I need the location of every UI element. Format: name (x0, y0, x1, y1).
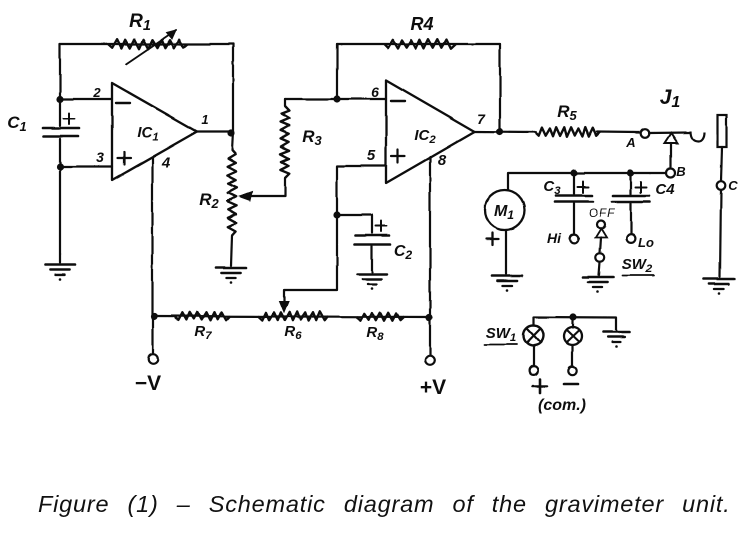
label C2 (394, 243, 413, 262)
svg-text:OFF: OFF (589, 206, 616, 220)
label pin 5 (367, 147, 376, 164)
resistor R8 (357, 313, 404, 321)
meter M1 (485, 190, 525, 230)
label M1 plus (486, 233, 498, 245)
svg-text:7: 7 (477, 111, 486, 127)
switch OFF wiper triangle (596, 229, 607, 238)
svg-text:3: 3 (96, 149, 104, 165)
svg-text:+V: +V (420, 376, 446, 399)
label C terminal (728, 178, 738, 193)
label R1 (129, 11, 151, 34)
wire R2 top (232, 132, 233, 151)
IC2 minus sign (391, 100, 405, 102)
label SW2 (622, 256, 654, 276)
capacitor C3 (555, 182, 593, 202)
terminal +V (425, 356, 435, 366)
label R6 (284, 323, 302, 342)
label IC1 (137, 124, 158, 143)
wire C2 node down to R6 wiper (280, 215, 338, 312)
node +V junction (425, 314, 432, 321)
label pin 1 (201, 112, 208, 127)
ground (jack sleeve) (704, 279, 734, 295)
label A (625, 135, 635, 150)
wire M1 bottom (505, 230, 507, 274)
resistor R6 (pot) (258, 311, 328, 320)
terminal B (666, 169, 675, 178)
wire pole to ground (599, 262, 600, 275)
svg-text:IC1: IC1 (137, 124, 158, 143)
svg-text:IC2: IC2 (414, 127, 436, 146)
svg-text:A: A (625, 135, 635, 150)
svg-text:C3: C3 (543, 178, 561, 197)
svg-text:C2: C2 (394, 243, 413, 262)
wire triangle to B (670, 143, 672, 169)
wire pin 2 (60, 98, 112, 100)
svg-text:SW1: SW1 (486, 325, 517, 344)
wire +V terminal (429, 317, 431, 355)
label pin 2 (92, 85, 101, 100)
label + polarity (533, 379, 547, 393)
wire left vertical (inverting input / C1 branch) (59, 44, 61, 263)
wire OFF to pole (600, 238, 601, 254)
IC2 plus sign (392, 150, 405, 163)
svg-text:SW2: SW2 (622, 256, 653, 275)
terminal Hi (570, 235, 579, 244)
ground (SW2) (583, 277, 613, 293)
svg-text:2: 2 (92, 85, 101, 100)
node C3 junction (570, 169, 577, 176)
label M1 (494, 203, 514, 222)
label pin 7 (477, 111, 486, 127)
label C3 (543, 178, 561, 197)
terminal Lo (627, 234, 636, 243)
wire C4 to Lo (630, 203, 632, 234)
svg-text:C: C (728, 178, 738, 193)
resistor R2 (pot) (227, 150, 237, 235)
label R7 (194, 323, 212, 342)
wire SW1 bus (534, 317, 616, 330)
svg-text:8: 8 (438, 152, 447, 169)
label C1 (7, 113, 26, 134)
resistor R4 (384, 39, 456, 49)
terminal + (SW1) (529, 366, 538, 375)
resistor R5 (535, 127, 600, 137)
wire R4 left leg (336, 44, 338, 99)
wire R2 bottom (231, 235, 232, 266)
terminal -V (148, 354, 158, 364)
label J1 (660, 86, 681, 111)
label R3 (302, 127, 322, 148)
node pin5/C2 junction (333, 211, 340, 218)
label +V (420, 376, 446, 399)
wire lamp1 to + terminal (532, 346, 534, 367)
label SW1 (485, 325, 517, 344)
label R4 (410, 14, 433, 34)
svg-text:R6: R6 (284, 323, 302, 342)
wire B bus (508, 173, 666, 190)
svg-text:Hi: Hi (547, 230, 562, 246)
wire lamp2 top (571, 317, 573, 328)
node IC2 output (496, 128, 503, 135)
wire C2 stub (337, 215, 372, 233)
svg-text:1: 1 (201, 112, 208, 127)
node pin2 junction (56, 95, 63, 102)
wire feedback right leg (232, 44, 234, 132)
wire C3 to Hi (573, 203, 575, 234)
terminal A (641, 129, 650, 138)
label -V (135, 372, 161, 395)
resistor R3 (280, 106, 290, 178)
plug sleeve (718, 115, 727, 147)
capacitor C2 (355, 221, 390, 245)
wire C to ground (720, 190, 721, 277)
svg-text:R3: R3 (302, 127, 322, 148)
wire pin 8 down to +V bus (429, 157, 431, 317)
ground (SW1) (603, 332, 629, 348)
wire IC1 output (197, 130, 233, 132)
label pin 8 (438, 152, 447, 169)
wire sleeve to C (721, 147, 722, 181)
wire pin 4 down to -V bus (151, 158, 153, 316)
svg-text:−V: −V (135, 372, 161, 395)
svg-text:5: 5 (367, 147, 376, 164)
lamp + (left) (524, 326, 544, 346)
wire R5 to A (597, 131, 640, 134)
node IC1 output (227, 129, 234, 136)
wire -V terminal (152, 316, 154, 354)
wire R2 wiper from R3 (239, 178, 285, 201)
wire supply bus (153, 316, 430, 317)
node SW1 bus (569, 313, 576, 320)
svg-text:R1: R1 (129, 11, 151, 34)
wire pin 3 (60, 166, 112, 168)
resistor R1 (108, 30, 188, 64)
label Hi (547, 230, 562, 246)
wire pin 5 to C2 node (337, 166, 386, 215)
label pin 3 (96, 149, 104, 165)
svg-text:C4: C4 (655, 181, 675, 198)
svg-text:4: 4 (161, 154, 171, 171)
ground (M1) (492, 276, 522, 292)
svg-text:R7: R7 (194, 323, 212, 342)
label pin 4 (161, 154, 171, 171)
node -V junction (150, 313, 157, 320)
svg-text:R2: R2 (199, 190, 219, 211)
svg-text:R8: R8 (366, 324, 384, 343)
label − polarity (564, 383, 578, 386)
label C4 (655, 181, 675, 198)
wire R3 top stub (284, 99, 286, 106)
label OFF (589, 206, 616, 220)
op-amp IC2 (386, 80, 475, 183)
switch OFF contact top (597, 221, 605, 229)
jack hook J1 (690, 131, 704, 142)
resistor R7 (174, 312, 230, 320)
wire IC2 output (475, 130, 535, 133)
label IC2 (414, 127, 436, 146)
ground (R2) (216, 268, 246, 284)
wire pin 6 (285, 98, 386, 100)
wire lamp2 to − terminal (571, 346, 573, 367)
wire R4 top (337, 43, 500, 45)
op-amp IC1 (112, 83, 197, 180)
wire A to hook (649, 131, 689, 134)
label R8 (366, 324, 384, 343)
svg-text:6: 6 (371, 84, 379, 100)
label Lo (638, 235, 654, 250)
label (com.) (538, 397, 586, 414)
caption: Figure (1) - Schematic diagram of the gravimeter unit. (38, 491, 728, 518)
wire C2 bottom (371, 246, 373, 272)
svg-text:(com.): (com.) (538, 397, 586, 414)
ground (C1 branch) (45, 265, 75, 281)
svg-text:B: B (676, 164, 685, 179)
svg-text:J1: J1 (660, 86, 681, 111)
wire R4 right leg (499, 44, 501, 132)
node C4 junction (627, 169, 634, 176)
svg-text:R4: R4 (410, 14, 433, 34)
IC1 minus sign (116, 102, 130, 104)
label R5 (557, 102, 577, 123)
label R2 (199, 190, 219, 211)
svg-text:Lo: Lo (638, 235, 654, 250)
switch SW2 pole (596, 253, 604, 261)
wire C3 stub (573, 173, 575, 194)
svg-text:C1: C1 (7, 113, 26, 134)
capacitor C4 (612, 182, 650, 202)
terminal − (SW1) (568, 366, 576, 374)
ground (C2) (357, 274, 387, 290)
node pin6 / R4 junction (333, 95, 340, 102)
wire top feedback (IC1) (60, 43, 233, 45)
wire C4 stub (630, 173, 632, 194)
capacitor C1 (43, 114, 79, 137)
terminal C (717, 181, 726, 190)
label pin 6 (371, 84, 379, 100)
IC1 plus sign (118, 152, 131, 165)
plug contact triangle (665, 133, 678, 143)
label B (676, 164, 685, 179)
node pin3 junction (56, 163, 63, 170)
svg-text:R5: R5 (557, 102, 577, 123)
svg-text:M1: M1 (494, 203, 514, 222)
lamp − (right) (564, 328, 582, 346)
